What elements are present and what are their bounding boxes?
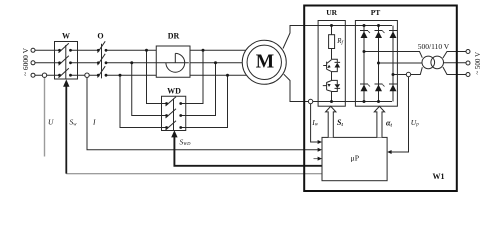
motor M inner circle (247, 45, 281, 79)
node bottom rail leg2 (377, 100, 380, 103)
svg-text:W1: W1 (433, 172, 445, 181)
switch WD contact stubs (162, 104, 186, 128)
node top rail leg1 (363, 24, 366, 27)
arrowhead input Iw at uP (318, 140, 322, 144)
control bus arrow alpha-t (hollow) (374, 106, 384, 137)
transformer 500/110V right winding (431, 56, 444, 69)
wire AC tap 2 to transformer (379, 62, 425, 64)
node bottom rail leg1 (363, 100, 366, 103)
disconnector O blade pole 2 (98, 54, 106, 65)
bridge PT triangles bottom row (361, 85, 397, 92)
thyristor pair T1 right branch (332, 59, 341, 71)
wire motor field bottom lead (284, 74, 392, 101)
wire signal Up (392, 77, 409, 152)
thyristor T2 gate arrowhead (327, 84, 330, 87)
wire signal Swd (bold) (174, 137, 322, 166)
svg-text:~ 500 V: ~ 500 V (474, 52, 482, 75)
switch WD blade pole 3 (166, 121, 177, 130)
switch WD blade pole 1 (166, 97, 177, 106)
terminal circle 500V L2 (466, 61, 470, 65)
exciter UR dashed cabinet box (318, 21, 345, 107)
wire AC tap 3 to transformer (393, 67, 422, 74)
bridge PT leg 1 (363, 26, 365, 102)
reactor DR symbol arc (166, 53, 185, 72)
wire transformer to terminal 2 (443, 62, 466, 64)
wire WD bypass right leg C (186, 75, 228, 127)
svg-text:500/110 V: 500/110 V (418, 42, 450, 51)
svg-text:WD: WD (167, 86, 181, 95)
wire AC tap 1 to transformer (364, 52, 422, 58)
wire phase line 3 (35, 74, 246, 76)
thyristor T1 triangle (335, 63, 341, 68)
wire resistor to crowbar pair T1 (331, 49, 333, 60)
disconnector O blade pole 3 (98, 66, 106, 77)
reactor DR symbol through line (156, 62, 189, 64)
microprocessor uP box (322, 137, 387, 180)
switch WD blade pole 2 (166, 109, 177, 118)
control bus arrow St (hollow) (326, 106, 336, 137)
bridge PT gate ticks (368, 31, 385, 87)
breaker W box (55, 42, 78, 80)
motor M outer circle (242, 40, 286, 84)
node AC tap leg2 (377, 62, 380, 65)
arrowhead input I at uP (318, 148, 322, 152)
resistor Rf chain top wire (331, 26, 333, 35)
svg-text:μP: μP (351, 153, 360, 162)
bypass switch WD box (162, 96, 186, 130)
arrowhead input Up at uP (387, 150, 391, 154)
resistor Rf body (329, 35, 335, 49)
node top rail UR chain (330, 24, 333, 27)
tap circle Up voltage tap (406, 72, 410, 76)
svg-text:~ 6000 V: ~ 6000 V (21, 47, 30, 76)
node WD tap line2 right (214, 61, 217, 64)
thyristor T1 gate arrowhead (327, 65, 330, 68)
arrowhead input U at uP (318, 157, 322, 161)
bridge PT leg 3 (392, 26, 394, 102)
reactor DR box (156, 46, 190, 77)
arrowhead command WD (Swd) (171, 130, 177, 137)
svg-text:UR: UR (326, 8, 337, 17)
node WD tap line1 right (202, 49, 205, 52)
wire signal Iw (311, 104, 318, 142)
svg-text:M: M (256, 51, 274, 72)
terminal circle supply L1 (31, 48, 35, 52)
svg-text:U: U (48, 118, 54, 127)
node WD tap line3 left (119, 74, 122, 77)
disconnector O blade pole 1 (98, 41, 106, 52)
wire phase line 1 (35, 49, 246, 51)
wire transformer to terminal 3 (443, 67, 466, 75)
wire signal I measurement (87, 77, 318, 149)
thyristor pair T1 left branch (323, 60, 331, 72)
wire motor field top lead (283, 26, 392, 49)
node top rail leg2 (377, 24, 380, 27)
node bottom rail UR chain (330, 100, 333, 103)
wire signal U measurement (unterminated grey) (44, 77, 46, 156)
bridge PT thyristor bars top row (360, 30, 397, 32)
box W1 outer cabinet (bold) (304, 6, 457, 192)
rectifier PT cabinet box (355, 21, 397, 107)
thyristor pair T2 left branch (323, 81, 332, 92)
transformer 500/110V left winding (422, 56, 435, 69)
svg-text:W: W (62, 32, 70, 41)
thyristor T2 triangle (335, 84, 341, 88)
terminal circle supply L2 (31, 61, 35, 65)
bridge PT triangles top row (361, 31, 397, 38)
bridge PT thyristor bars bottom row (360, 83, 397, 85)
junction dots O contacts (97, 49, 100, 52)
terminal circle supply L3 (31, 73, 35, 77)
svg-text:DR: DR (168, 32, 180, 41)
wire WD bypass right leg B (186, 63, 216, 116)
wire phase line 2 (35, 62, 242, 64)
disconnector O linkage (101, 44, 103, 79)
breaker W linkage (65, 45, 67, 79)
wire T2 to bottom rail (331, 92, 333, 102)
junction dots WD contacts (165, 102, 168, 105)
wire transformer to terminal 1 (443, 52, 466, 59)
terminal circle 500V L3 (466, 73, 470, 77)
thyristor pair T2 right branch (332, 80, 341, 91)
wire signal U stub at microprocessor (314, 158, 318, 160)
reactor DR symbol radius line (174, 53, 176, 62)
terminal circle 500V L1 (466, 50, 470, 54)
junction dots W contacts (58, 49, 61, 52)
node WD tap line3 right (226, 74, 229, 77)
breaker W blade pole 1 (59, 43, 69, 53)
arrowhead command W (Sw) (63, 79, 69, 86)
node AC tap leg1 (363, 50, 366, 53)
breaker W blade pole 2 (59, 56, 69, 66)
bridge PT leg 2 (378, 26, 380, 102)
wire signal Sw horizontal (66, 173, 322, 175)
breaker W contact stubs (55, 50, 78, 75)
wire WD bypass left leg A (147, 50, 162, 103)
svg-text:I: I (92, 118, 96, 127)
wire signal Sw vertical (bold) (65, 86, 67, 173)
node WD tap line1 left (145, 49, 148, 52)
wire T1 to T2 (331, 72, 333, 81)
node AC tap leg3 (392, 73, 395, 76)
switch WD linkage (173, 99, 175, 131)
tap circle Iw current transformer (308, 99, 312, 103)
svg-text:O: O (97, 32, 103, 41)
wire WD bypass left leg B (132, 63, 162, 116)
tap circle I current transformer (85, 73, 89, 77)
breaker W blade pole 3 (59, 68, 69, 78)
node WD tap line2 left (130, 61, 133, 64)
wire WD bypass right leg A (186, 50, 203, 103)
svg-text:PT: PT (371, 8, 381, 17)
wire WD bypass left leg C (120, 75, 162, 127)
tap circle U voltage transformer (42, 73, 46, 77)
